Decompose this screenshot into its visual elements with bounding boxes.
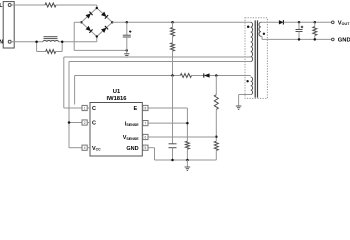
svg-text:ISENSE: ISENSE [125, 121, 139, 127]
svg-text:4: 4 [84, 146, 86, 150]
svg-text:6: 6 [145, 135, 147, 139]
svg-text:8: 8 [145, 106, 147, 110]
svg-text:GND: GND [338, 38, 350, 44]
svg-text:GND: GND [126, 146, 138, 152]
svg-text:C: C [92, 121, 96, 127]
svg-text:IW1816: IW1816 [107, 96, 128, 102]
svg-text:VSENSE: VSENSE [123, 135, 139, 141]
svg-text:7: 7 [145, 122, 147, 126]
svg-text:L: L [0, 3, 2, 9]
svg-text:VCC: VCC [92, 146, 101, 152]
svg-text:C: C [92, 106, 96, 112]
svg-text:1: 1 [84, 106, 86, 110]
svg-text:N: N [0, 40, 3, 46]
svg-text:2: 2 [84, 121, 86, 125]
svg-text:U1: U1 [113, 89, 121, 95]
svg-text:E: E [134, 106, 138, 112]
svg-text:5: 5 [145, 146, 147, 150]
